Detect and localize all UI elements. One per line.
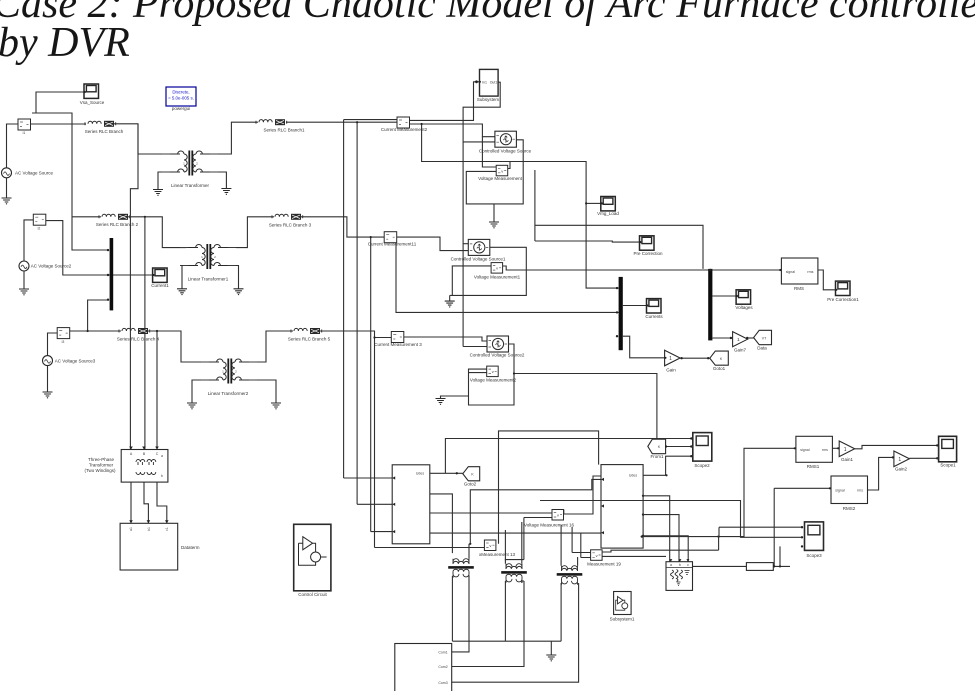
wire Tb bottom-left to neutral	[504, 581, 506, 641]
gain Gain	[665, 350, 681, 372]
wire I2 out to bus and scope	[46, 221, 153, 275]
node vertical row2 tap to 3ph transformer	[144, 217, 146, 450]
wire bus stub row3	[88, 300, 107, 331]
node vertical row3 tap to 3ph transformer	[156, 331, 158, 450]
wire transformer out up to branch1	[218, 122, 258, 154]
wire Ta top right up	[469, 543, 471, 559]
svg-text:Out1: Out1	[490, 80, 498, 84]
svg-text:rms: rms	[857, 489, 863, 493]
wire vm16 out to udes in2	[564, 476, 601, 514]
scope Pre Correction1	[827, 281, 859, 302]
wire CVS out loop right	[466, 140, 523, 204]
svg-text:b1: b1	[147, 527, 151, 531]
wire 3ph outputs to dataterm	[131, 482, 167, 523]
wire VM2 out long to scope2 line	[513, 372, 657, 438]
svg-text:Com3: Com3	[438, 681, 447, 685]
svg-text:Current1: Current1	[151, 283, 169, 288]
wire udec out1 to goto2 and scope line	[430, 439, 692, 475]
voltage measurement13	[479, 540, 516, 557]
scope Scope2	[693, 433, 712, 468]
svg-text:xMeasurement 13: xMeasurement 13	[479, 552, 516, 557]
wire from1 to scope2	[666, 446, 693, 448]
ground stem row2 loop	[449, 295, 451, 301]
wire branch to scope Vmg_Load	[586, 202, 601, 204]
arc furnace block	[666, 559, 693, 590]
subsystem DVR control	[477, 69, 500, 102]
controlled voltage source	[479, 131, 532, 153]
wire Tc top ports up	[561, 525, 578, 566]
gain Gain1	[839, 441, 855, 462]
wire source3 to ground	[47, 366, 49, 392]
wire control tap to CVS2	[463, 346, 487, 348]
wire tapB to udec in2	[357, 503, 392, 505]
junction dot	[156, 330, 158, 332]
junction dot	[370, 236, 372, 238]
wire Ta bottom-left to neutral	[451, 576, 453, 641]
wire branch1 to CM2	[286, 121, 397, 123]
svg-text:Com1: Com1	[438, 651, 447, 655]
svg-text:Transformer: Transformer	[89, 463, 114, 468]
wire pre-correction loop	[535, 170, 703, 269]
wire voltage tap riser	[499, 431, 599, 544]
wire RMS out to scope	[818, 270, 836, 290]
wire row2 main from vertical	[72, 216, 101, 218]
wire row1 jog to 3ph transformer	[130, 124, 138, 450]
ground	[271, 403, 281, 409]
svg-text:AC Voltage Source3: AC Voltage Source3	[55, 359, 96, 364]
ground	[2, 198, 12, 204]
wire bus2 to gain7	[712, 337, 732, 339]
wire furnace right to series block	[693, 565, 747, 567]
svg-text:Series RLC Branch: Series RLC Branch	[85, 129, 124, 134]
svg-text:Voltage Measurement2: Voltage Measurement2	[470, 378, 517, 383]
current measurement I1	[18, 119, 31, 135]
ground	[153, 190, 163, 196]
gain Gain7	[733, 332, 748, 353]
wire AC source2 to I2	[24, 220, 33, 262]
svg-text:Series RLC Branch 2: Series RLC Branch 2	[96, 222, 139, 227]
wire udes out c down to furnace	[643, 536, 688, 563]
current measurement I3	[57, 328, 69, 344]
wire udec out4 to udes in3	[430, 532, 601, 534]
wire t2 lower-left ground	[192, 380, 201, 403]
junction dots scope2 inputs	[690, 437, 692, 457]
wire udes top out to scope2	[643, 456, 693, 475]
svg-text:Vmg_Load: Vmg_Load	[597, 211, 619, 216]
current measurement13	[374, 332, 422, 348]
wire branch2 to transformer1	[128, 217, 186, 248]
three-phase transformer block	[121, 447, 168, 483]
linear transformer1	[180, 244, 236, 282]
svg-text:In1: In1	[482, 80, 487, 84]
svg-text:Linear Transformer2: Linear Transformer2	[208, 391, 249, 396]
linear transformer2	[201, 359, 257, 397]
wire long mid row to bus1	[396, 243, 619, 313]
voltage measurement	[478, 165, 523, 181]
series RLC branch	[85, 121, 124, 134]
svg-text:Scope2: Scope2	[694, 463, 710, 468]
transformer Tc	[557, 566, 583, 585]
svg-text:RMS2: RMS2	[843, 506, 856, 511]
svg-text:Subsystem1: Subsystem1	[610, 617, 635, 622]
wire meas19 junction riser	[718, 537, 720, 551]
RMS2 block	[831, 476, 868, 511]
svg-text:Udes: Udes	[629, 474, 637, 478]
svg-text:Voltage Measurement 16: Voltage Measurement 16	[524, 523, 575, 528]
ground stem row3 loop	[441, 396, 469, 399]
title line 2	[0, 20, 130, 66]
svg-text:AC Voltage Source: AC Voltage Source	[15, 171, 54, 176]
svg-text:Series RLC Branch 3: Series RLC Branch 3	[269, 223, 312, 228]
series RLC branch 3	[269, 214, 312, 228]
input arrow dots	[84, 81, 894, 490]
wire tapC to udec in3	[371, 531, 393, 533]
mux block Udes	[601, 465, 644, 548]
svg-text:b: b	[161, 474, 163, 478]
transformer Tb	[501, 564, 527, 583]
wire bus1 to currents scope	[623, 305, 647, 307]
node vertical row2 tap C	[370, 237, 372, 531]
goto tag Goto2	[463, 467, 480, 487]
wire bus2 to voltages scope	[712, 295, 736, 297]
wire I3 out	[70, 330, 121, 332]
wire CM2 signal to subsystem In1	[410, 80, 480, 120]
svg-text:Currents: Currents	[645, 314, 663, 319]
wire VM1 out to bus2 top	[503, 266, 714, 270]
wire t1 lower-left ground	[180, 266, 182, 289]
wire VM out to Vmg_Load	[421, 123, 619, 288]
wire udes out b down to furnace	[643, 515, 679, 563]
ground	[546, 655, 556, 661]
svg-text:Control Circuit: Control Circuit	[298, 592, 327, 597]
voltage measurement2	[470, 366, 517, 382]
wire branch5 to CM13	[320, 331, 391, 338]
junction dot	[87, 330, 89, 332]
wire tap to CVS minus	[463, 141, 495, 143]
svg-text:Three-Phase: Three-Phase	[88, 457, 115, 462]
scope Scope3	[805, 522, 824, 558]
current measurement11	[368, 232, 417, 247]
scope Currents	[645, 299, 663, 319]
wire t2 out up to branch5	[257, 331, 293, 362]
wire rms1 feed	[641, 448, 796, 538]
series RLC branch 4	[117, 328, 160, 342]
svg-text:Voltage Measurement1: Voltage Measurement1	[474, 275, 521, 280]
wire source to ground	[6, 178, 8, 198]
scope Pre Correction	[633, 236, 663, 256]
svg-text:i1: i1	[23, 131, 26, 135]
svg-text:Gain1: Gain1	[841, 457, 854, 462]
wire gain7 to data tag	[746, 337, 754, 339]
svg-text:Pre Correction: Pre Correction	[633, 251, 663, 256]
svg-text:Udes: Udes	[416, 472, 424, 476]
node vertical row3 tap D	[373, 336, 375, 547]
svg-text:AC Voltage Source2: AC Voltage Source2	[31, 264, 72, 269]
wire source2 to ground	[23, 271, 25, 289]
label three-phase transformer	[84, 457, 116, 473]
junction dot	[585, 202, 587, 204]
wire tapD to xmeas	[375, 547, 485, 549]
svg-text:b: b	[679, 563, 681, 567]
wire gain1 to scope1	[855, 445, 939, 448]
svg-text:Com2: Com2	[438, 665, 447, 669]
svg-text:Data: Data	[757, 346, 767, 351]
svg-text:i3: i3	[62, 340, 65, 344]
wire rms1 out to gain1	[832, 447, 839, 449]
svg-text:RMS1: RMS1	[807, 464, 820, 469]
svg-text:Pre Correction1: Pre Correction1	[827, 297, 859, 302]
neutral bus wire	[452, 640, 561, 642]
wire udes out a down to furnace	[643, 496, 670, 563]
wire t1 lower-right ground	[236, 266, 239, 289]
wire xmeas up to udes in1	[470, 479, 601, 543]
svg-text:RMS: RMS	[794, 286, 804, 291]
wire node to long vertical	[32, 113, 107, 250]
node vertical row1 tap B	[356, 121, 358, 504]
junction dot	[144, 216, 146, 218]
powergui block	[166, 87, 196, 111]
svg-text:a: a	[161, 454, 163, 458]
svg-text:Case 2: Proposed Chaotic Model: Case 2: Proposed Chaotic Model of Arc Fu…	[0, 0, 975, 27]
AC Voltage Source3	[43, 356, 96, 366]
wire vm16 loop	[505, 518, 552, 561]
ground	[234, 289, 244, 295]
wire Tb bottom-right to com2	[452, 581, 524, 667]
wire CM13 out to CVS2	[404, 337, 487, 341]
goto tag Data	[754, 330, 772, 350]
wire Ta bottom-right to com1	[452, 576, 469, 652]
series RLC branch 2	[96, 214, 139, 227]
ground	[19, 289, 29, 295]
svg-text:c1: c1	[165, 527, 169, 531]
wire transformer lower-left to ground	[158, 172, 162, 189]
wire gain2 to scope1	[909, 445, 938, 458]
measurement19 block	[587, 550, 621, 567]
wire control tap to CVS1	[463, 243, 468, 245]
svg-text:From1: From1	[650, 454, 663, 459]
svg-text:Goto1: Goto1	[713, 366, 726, 371]
svg-text:Dataterm: Dataterm	[181, 545, 200, 550]
dataterm block	[120, 520, 200, 570]
wire subsystem out loop	[463, 82, 500, 346]
RMS block	[781, 258, 818, 291]
wire VM in upper	[482, 137, 496, 167]
wire branch4 to transformer2	[148, 331, 206, 362]
svg-text:Subsystem: Subsystem	[477, 97, 500, 102]
svg-text:Series RLC Branch1: Series RLC Branch1	[263, 128, 305, 133]
wire CM2 out to CVS plus	[410, 124, 495, 137]
svg-text:Gain7: Gain7	[734, 348, 747, 353]
svg-text:1: 1	[737, 337, 740, 343]
svg-text:Linear Transformer1: Linear Transformer1	[188, 277, 229, 282]
svg-text:c: c	[687, 563, 689, 567]
junction dots scope3	[801, 526, 803, 548]
svg-text:Gain: Gain	[666, 368, 676, 373]
svg-text:Gain2: Gain2	[895, 467, 908, 472]
wire gain to goto1	[680, 357, 710, 359]
current measurement I2	[33, 214, 46, 230]
series RLC branch1	[256, 119, 305, 132]
wire long mid feed	[540, 501, 802, 538]
bus bar B1	[616, 277, 623, 350]
scope Voltages	[735, 290, 753, 310]
ground	[445, 301, 455, 307]
controlled voltage source2	[470, 336, 525, 358]
wire Tb top ports up	[505, 522, 521, 564]
svg-text:signal: signal	[835, 489, 845, 493]
ground	[187, 403, 197, 409]
wire branch to transformer	[114, 124, 167, 154]
linear transformer	[162, 151, 218, 189]
goto tag Goto1	[710, 351, 729, 371]
svg-text:Measurement 19: Measurement 19	[587, 562, 621, 567]
junction dot bus row2	[107, 274, 109, 276]
svg-text:a1: a1	[129, 527, 133, 531]
RMS1 block	[796, 436, 833, 469]
wire Tc bottom-right to com3	[452, 583, 579, 682]
svg-text:powergui: powergui	[172, 106, 190, 111]
svg-text:Linear Transformer: Linear Transformer	[171, 183, 210, 188]
svg-text:Discrete,: Discrete,	[172, 90, 189, 95]
node vertical row1 tap A	[344, 120, 397, 478]
com subsystem block	[395, 644, 452, 691]
wire bus2 to RMS	[713, 269, 781, 271]
ground	[436, 399, 446, 405]
wire meas19 out up right	[602, 550, 719, 556]
wire rms2 out to gain2	[867, 457, 894, 490]
transformer Ta	[448, 559, 474, 578]
svg-text:Current Measurement 3: Current Measurement 3	[374, 342, 422, 347]
current measurement2	[381, 117, 428, 132]
series compensator thin block	[746, 563, 773, 571]
wire meas19 inputs	[572, 527, 591, 558]
wire I1 out	[31, 123, 87, 125]
subsystem1 block	[610, 592, 635, 622]
from tag From1	[648, 439, 666, 459]
wire scope feed	[36, 92, 84, 113]
voltage measurement16	[524, 510, 575, 528]
svg-text:Series RLC Branch 4: Series RLC Branch 4	[117, 337, 160, 342]
wire t1 out up to branch3	[236, 217, 274, 248]
wire Tc bottom-left to neutral	[560, 583, 562, 641]
wire AC source3 to I3	[48, 333, 58, 356]
wire udec out3 to VM16	[430, 512, 552, 514]
ground	[489, 222, 499, 228]
svg-text:Scope3: Scope3	[806, 553, 822, 558]
AC Voltage Source	[2, 168, 54, 178]
wire rms2 input	[774, 487, 831, 489]
gain Gain2	[894, 451, 910, 472]
controlled voltage source1	[451, 239, 506, 261]
wire bus1 to gain	[623, 336, 665, 358]
wire transformer lower-right to ground	[218, 172, 226, 188]
svg-text:a: a	[670, 563, 672, 567]
svg-text:Current Measurement2: Current Measurement2	[381, 127, 428, 132]
wire CVS1 loop	[450, 247, 527, 295]
control circuit block	[294, 524, 331, 597]
scope Scope1	[939, 436, 957, 467]
wire CM11 out to CVS1	[397, 237, 469, 251]
svg-text:Controlled Voltage Source2: Controlled Voltage Source2	[470, 353, 525, 358]
wire CVS2 loop	[469, 344, 515, 405]
title line 1	[0, 0, 975, 27]
wire series block right	[773, 488, 790, 567]
scope Current1	[151, 268, 169, 288]
wire udec out2 down to Ta	[430, 494, 453, 553]
wire branch3 to CM11	[301, 217, 384, 237]
wire AC source to I1	[7, 124, 19, 168]
svg-text:by DVR: by DVR	[0, 20, 130, 66]
AC Voltage Source2	[19, 261, 72, 271]
svg-text:Voltages: Voltages	[735, 305, 753, 310]
scope Vmg_Load	[597, 197, 619, 217]
ground	[43, 392, 53, 398]
wire scope3 top input	[719, 527, 802, 536]
bus bar left	[107, 238, 113, 310]
series RLC branch 5	[288, 328, 331, 342]
svg-text:Goto2: Goto2	[464, 482, 477, 487]
svg-text:Voltage Measurement: Voltage Measurement	[478, 176, 523, 181]
scope Vsa_Source	[80, 84, 105, 105]
svg-text:= 5.0e-005 s.: = 5.0e-005 s.	[168, 96, 194, 101]
svg-text:Controlled Voltage Source1: Controlled Voltage Source1	[451, 257, 506, 262]
ground stem neutral	[550, 641, 552, 655]
ground	[177, 289, 187, 295]
wire tapA to udec in1	[344, 477, 393, 479]
svg-text:Vsa_Source: Vsa_Source	[80, 100, 105, 105]
svg-text:i2: i2	[38, 227, 41, 231]
junction dots scope1	[936, 444, 938, 459]
svg-text:Series RLC Branch 5: Series RLC Branch 5	[288, 337, 331, 342]
ground	[221, 189, 231, 195]
ground stem row1 loop	[493, 204, 495, 222]
voltage measurement1	[474, 263, 521, 280]
svg-text:Scope1: Scope1	[940, 463, 956, 468]
wire t2 lower-right ground	[257, 380, 276, 403]
bus bar B2	[708, 269, 712, 341]
svg-text:(Two Windings): (Two Windings)	[84, 468, 116, 473]
svg-text:Current Measurement11: Current Measurement11	[368, 242, 417, 247]
mux block Udec	[392, 465, 430, 544]
